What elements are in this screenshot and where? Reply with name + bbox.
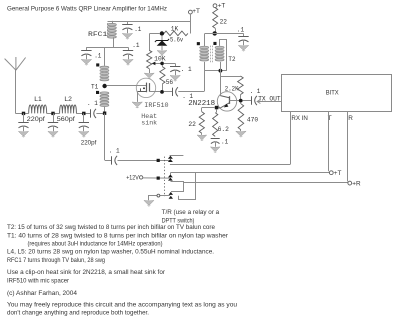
resistor 56 (162, 65, 164, 67)
wire +T line (170, 172, 329, 174)
svg-text:You may freely reproduce this: You may freely reproduce this circuit an… (7, 301, 237, 308)
svg-text:10K: 10K (154, 56, 166, 63)
svg-text:220pf: 220pf (27, 116, 45, 123)
svg-text:. 1: . 1 (109, 148, 120, 155)
wire +12 rail to T1 top (104, 47, 106, 66)
wire RX IN down (290, 111, 292, 164)
10K wiper arrow (152, 62, 161, 66)
wire 22 to T2 node (215, 28, 217, 31)
svg-text:+T: +T (334, 170, 342, 177)
wire +T to RFC1 (108, 21, 191, 23)
node T1 tap (102, 84, 106, 88)
node L1/L2 (51, 112, 54, 115)
capacitor .1 TX coupling (252, 96, 257, 105)
wire +R line (184, 182, 348, 184)
wire T2 right top bracket (220, 40, 227, 71)
svg-text:Use a clip-on heat sink for 2N: Use a clip-on heat sink for 2N2218, a sm… (7, 269, 166, 276)
wire RFC1 bottom stub (113, 37, 115, 47)
svg-text:don't change anything and repr: don't change anything and reproduce both… (7, 310, 149, 316)
wire R pin down (347, 111, 349, 181)
wire +12V to pole B (143, 177, 170, 179)
wire TX stub throw (170, 155, 184, 157)
svg-text:L4, L5: 20 turns 28 swg on nyl: L4, L5: 20 turns 28 swg on nylon tap was… (7, 249, 214, 256)
contact pole B arm (168, 178, 173, 181)
wire wiper to bypass cap (164, 63, 175, 65)
terminal +T (switch) (329, 170, 341, 177)
wire RFC1 top stub (112, 21, 114, 24)
terminal pole C (157, 194, 160, 197)
T2 core dashes (211, 46, 213, 63)
svg-text:+T: +T (192, 8, 200, 15)
svg-text:470: 470 (247, 116, 259, 123)
capacitor .1 bias bypass ground (170, 75, 180, 81)
zener ground (157, 51, 167, 57)
svg-text:. 1: . 1 (181, 66, 192, 73)
node 2N2218 emitter (215, 106, 219, 110)
wire 56 to gate node (162, 84, 164, 90)
svg-text:22: 22 (188, 121, 196, 128)
svg-text:T2: T2 (228, 56, 235, 63)
wire 1K junction to 10K (149, 33, 160, 35)
terminal +T (left) (189, 8, 201, 15)
wire base to TX cap (243, 100, 252, 102)
capacitor .1 rail bypass right ground (123, 59, 133, 65)
choke RFC1 (107, 23, 116, 38)
svg-text:BITX: BITX (326, 90, 339, 97)
svg-text:sink: sink (141, 120, 157, 127)
terminal +12V (126, 174, 143, 181)
capacitor .1 RFC1 top ground (122, 33, 132, 39)
svg-text:T2: 15 of turns of 32 swg twis: T2: 15 of turns of 32 swg twisted to 8 t… (7, 224, 215, 231)
wire 2.2K to base node (240, 95, 242, 99)
capacitor .1 rail bypass left (81, 47, 91, 59)
svg-text:. 1: . 1 (250, 88, 261, 95)
svg-text:+12V: +12V (126, 174, 139, 181)
470 ground (236, 131, 246, 137)
svg-text:IRF510: IRF510 (144, 102, 168, 109)
capacitor .1 bias bypass (170, 63, 180, 75)
capacitor 220pf (second) ground (79, 131, 89, 137)
contact pole A arm (168, 159, 173, 162)
node IRF510 gate (160, 90, 164, 94)
resistor 6.2 (213, 113, 218, 137)
wire 22 to ground (201, 133, 203, 135)
svg-text:RFC1: RFC1 (88, 31, 108, 38)
wire T2 left lower (204, 71, 206, 92)
switch linkage dashes (164, 157, 166, 197)
svg-text:2N2218: 2N2218 (188, 100, 215, 108)
contact pole A throw (168, 156, 173, 159)
zener diode 5.6v (155, 35, 169, 50)
resistor 2.2K (238, 76, 244, 95)
RFC1 core dashes (107, 23, 109, 37)
wire node to T/R cap (105, 160, 112, 162)
svg-text:56: 56 (166, 79, 174, 86)
BITX block (282, 75, 392, 112)
node T1 bottom (103, 112, 106, 115)
wire 10K to ground (149, 69, 151, 73)
contact pole C arm (169, 196, 173, 199)
wire T2 left lower stub (204, 62, 206, 71)
svg-text:T1: 40 turns of 28 swg twisted: T1: 40 turns of 28 swg twisted to 8 turn… (7, 232, 229, 239)
wire (15, 113, 28, 115)
transformer T2 left winding (200, 46, 209, 61)
svg-text:.1: .1 (132, 42, 140, 49)
wire T2 bottom link (204, 70, 227, 72)
contact pole B throw T (168, 174, 173, 177)
wire cap to T2 bottom (178, 91, 204, 93)
svg-text:560pf: 560pf (57, 116, 75, 123)
capacitor .1 RFC1 top (122, 22, 132, 34)
pole C ground (144, 200, 154, 206)
resistor 1K (164, 31, 188, 36)
svg-text:.1: .1 (221, 138, 229, 145)
svg-text:L1: L1 (34, 96, 42, 103)
svg-text:1K: 1K (171, 26, 179, 33)
wire T/R pole A (118, 160, 170, 162)
wire T1 lower to node (104, 107, 106, 112)
wire (96, 113, 103, 115)
node zener/1K (160, 31, 164, 35)
svg-text:IRF510 with mic spacer: IRF510 with mic spacer (7, 277, 70, 284)
capacitor 220pf (input) (18, 113, 28, 131)
svg-text:General Purpose 6 Watts QRP Li: General Purpose 6 Watts QRP Linear Ampli… (7, 6, 167, 13)
svg-text:+R: +R (352, 181, 361, 188)
svg-text:5.6v: 5.6v (170, 37, 183, 44)
svg-text:220pf: 220pf (81, 140, 97, 147)
svg-text:RFC1 7 turns through TV balun,: RFC1 7 turns through TV balun, 28 swg (7, 257, 105, 264)
wire emitter left (202, 107, 215, 109)
wire down to 10K (149, 34, 151, 51)
capacitor .1 T2 bypass (238, 33, 248, 45)
svg-text:+T: +T (218, 3, 226, 10)
emitter cap ground (210, 147, 220, 153)
node T2/collector (219, 69, 223, 73)
wire RX IN to switch (170, 164, 291, 166)
capacitor .1 rail bypass left ground (81, 59, 91, 65)
capacitor 560pf (48, 113, 58, 131)
IRF510 source ground (132, 102, 142, 108)
wire emitter to 6.2 (216, 110, 218, 113)
svg-text:.1: .1 (134, 26, 142, 33)
wire T2 right to collector (220, 62, 222, 94)
wire (47, 113, 60, 115)
wire TX OUT with arrow (257, 100, 282, 104)
capacitor 220pf (input) ground (18, 131, 28, 137)
antenna (5, 57, 26, 113)
wire T2 left top (204, 34, 206, 47)
T2 phase dot left (197, 42, 200, 45)
wire (76, 113, 90, 115)
node L2/C3 (82, 112, 85, 115)
wire +T throw stub (170, 173, 172, 175)
svg-text:L2: L2 (64, 96, 72, 103)
svg-text:.1: .1 (237, 26, 245, 33)
node antenna/L1 (22, 112, 25, 115)
transformer T2 right winding (215, 46, 224, 61)
capacitor .1 T/R coupling (112, 156, 118, 165)
node 2N2218 base (239, 99, 243, 103)
transformer T1 upper winding (100, 66, 109, 81)
svg-text:6.2: 6.2 (218, 126, 230, 133)
10K ground (144, 73, 154, 79)
capacitor .1 rail bypass right (123, 47, 133, 59)
wire to 22 emitter (201, 108, 203, 112)
preset 10K (147, 50, 152, 68)
wire 470 to ground (240, 130, 242, 131)
svg-text:TX OUT: TX OUT (258, 96, 281, 103)
resistor 470 (238, 104, 244, 130)
svg-text:(c) Ashhar Farhan, 2004: (c) Ashhar Farhan, 2004 (7, 290, 77, 297)
wire pole B throw R detour (171, 182, 184, 192)
capacitor .1 emitter (211, 139, 220, 147)
transformer T1 lower winding (100, 92, 109, 107)
transistor 2N2218 (217, 92, 240, 111)
T1 phase dot lower (96, 91, 99, 94)
resistor 22 emitter (199, 112, 204, 133)
capacitor .1 gate coupling (173, 87, 178, 96)
wire collector to 2.2K (220, 76, 240, 78)
capacitor 560pf ground (48, 131, 58, 137)
node pole B (157, 177, 160, 180)
contact pole C throw (169, 192, 173, 195)
wire +T down to 1K (190, 14, 192, 34)
svg-text:. 1: . 1 (87, 100, 98, 107)
svg-text:RX IN: RX IN (291, 115, 308, 122)
node pole A (157, 159, 160, 162)
svg-text:22: 22 (220, 18, 228, 25)
transistor IRF510 (107, 78, 161, 102)
terminal +R (348, 181, 361, 188)
wire gate node to cap (164, 91, 173, 93)
wire +12V TX rail (86, 47, 128, 49)
wire base to 470 (240, 102, 242, 103)
svg-text:T/R (use a relay or a: T/R (use a relay or a (162, 209, 220, 216)
wire T1 node down to T/R cap (104, 113, 106, 160)
inductor L1 (29, 105, 47, 113)
capacitor .1 T2 bypass ground (238, 45, 248, 51)
node bias wiper (160, 62, 164, 66)
T2 phase dot right (213, 42, 216, 45)
capacitor 220pf (second) (79, 113, 89, 131)
wire T pin down (328, 111, 330, 171)
wire +T to pole C return (179, 173, 196, 200)
22 emitter ground (197, 135, 207, 141)
wire T2 top rail (205, 33, 244, 35)
T1 phase dot upper (96, 63, 99, 66)
svg-text:R: R (348, 115, 353, 122)
terminal +T (right) (213, 3, 225, 10)
svg-text:(requires about 3uH inductance: (requires about 3uH inductance for 14MHz… (28, 241, 163, 248)
resistor 22 feed (213, 8, 218, 29)
svg-text:T1: T1 (91, 84, 98, 91)
inductor L2 (60, 105, 77, 113)
node +T/T2 (213, 31, 217, 35)
capacitor .1 antenna coupling (91, 109, 97, 118)
wire pole C ground arm (149, 196, 170, 201)
svg-text:.1: .1 (94, 53, 102, 60)
